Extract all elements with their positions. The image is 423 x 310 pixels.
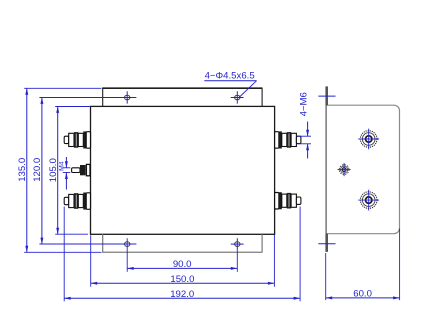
dimension 192.0 [64, 207, 300, 302]
side flange top tab [325, 86, 328, 105]
side flange plate left edge [325, 87, 327, 252]
side terminal end view M4 middle [338, 163, 351, 176]
mounting slot hole bottom-right [235, 242, 240, 247]
svg-text:90.0: 90.0 [173, 259, 192, 270]
dimension M4 stud [58, 157, 70, 190]
dimension 120.0 [32, 97, 136, 244]
dimension 150.0 [91, 235, 275, 287]
filter body [91, 106, 275, 234]
mounting slot hole top-right [235, 95, 240, 100]
label 4-phi4.5x6.5 with leader [204, 71, 256, 98]
center mark top-right hole [231, 91, 244, 103]
svg-text:105.0: 105.0 [48, 158, 59, 182]
svg-text:135.0: 135.0 [17, 158, 28, 182]
terminal M6 left bottom [64, 193, 90, 210]
svg-text:60.0: 60.0 [353, 288, 372, 299]
dimension 60.0 [326, 229, 400, 301]
svg-text:120.0: 120.0 [32, 158, 43, 182]
top mounting flange [102, 88, 262, 106]
dimension 4-M6 studs [297, 92, 311, 158]
dimension 105.0 [48, 106, 90, 234]
svg-text:192.0: 192.0 [170, 289, 194, 300]
terminal M6 right top [275, 131, 301, 148]
bottom mounting flange [102, 234, 262, 252]
side flange bottom tab [325, 234, 328, 252]
side body outline [326, 105, 399, 234]
svg-text:M4: M4 [58, 161, 65, 171]
svg-text:150.0: 150.0 [170, 274, 194, 285]
terminal M6 right bottom [275, 192, 301, 209]
side hole center mark bottom [318, 243, 335, 245]
center mark top-left hole [126, 91, 128, 103]
dimension 90.0 [127, 238, 237, 272]
terminal M4 ground left middle [72, 164, 90, 175]
side terminal end view M6 top [358, 129, 379, 150]
svg-text:4−Φ4.5x6.5: 4−Φ4.5x6.5 [205, 71, 255, 82]
mounting slot hole top-left [125, 95, 130, 100]
mounting slot hole bottom-left [125, 242, 130, 247]
terminal M6 left top [64, 131, 90, 148]
center mark bottom-right hole [231, 238, 244, 250]
side terminal end view M6 bottom [358, 190, 379, 211]
dimension 135.0 [17, 88, 102, 252]
svg-text:4−M6: 4−M6 [299, 92, 310, 116]
side hole center mark top [318, 95, 335, 97]
